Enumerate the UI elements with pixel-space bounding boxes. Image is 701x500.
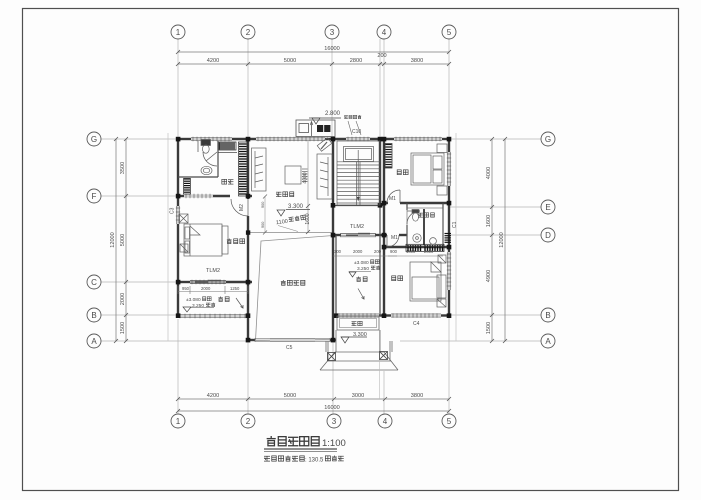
svg-text:C3: C3 (170, 207, 176, 214)
svg-text:M2: M2 (239, 204, 245, 211)
svg-text:4000: 4000 (303, 172, 309, 183)
svg-text:1250: 1250 (230, 286, 240, 291)
svg-text:900: 900 (390, 249, 398, 254)
svg-text:TLM2: TLM2 (350, 224, 364, 230)
svg-text:2800: 2800 (350, 58, 362, 64)
svg-text:C5: C5 (286, 345, 293, 351)
svg-text:1500: 1500 (120, 322, 126, 334)
svg-text:900: 900 (261, 222, 265, 228)
svg-text:1: 1 (176, 28, 181, 37)
svg-text:2.800: 2.800 (325, 111, 341, 117)
svg-text:200: 200 (374, 249, 382, 254)
svg-text:4200: 4200 (207, 58, 219, 64)
svg-text:900: 900 (261, 202, 265, 208)
svg-text:TLM2: TLM2 (206, 268, 220, 274)
svg-text:G: G (545, 135, 551, 144)
svg-text:3000: 3000 (352, 393, 364, 399)
svg-text:5000: 5000 (120, 234, 126, 246)
svg-text:5: 5 (447, 28, 452, 37)
svg-text:3.300: 3.300 (288, 204, 304, 210)
svg-text:4200: 4200 (207, 393, 219, 399)
svg-text:16000: 16000 (324, 405, 340, 411)
svg-text:B: B (91, 311, 96, 320)
svg-text:C: C (91, 278, 97, 287)
svg-text:±3.080: ±3.080 (186, 297, 201, 303)
svg-text:3: 3 (330, 28, 335, 37)
svg-text:1500: 1500 (486, 322, 492, 334)
svg-text:C4: C4 (413, 321, 420, 327)
svg-text:1000: 1000 (406, 249, 416, 254)
svg-text:16000: 16000 (324, 46, 340, 52)
svg-text:M1: M1 (391, 235, 398, 241)
svg-text:5: 5 (447, 417, 452, 426)
svg-text:1600: 1600 (305, 213, 311, 224)
svg-text:4: 4 (382, 28, 387, 37)
svg-text:3.300: 3.300 (353, 332, 367, 338)
svg-text:950: 950 (182, 286, 190, 291)
svg-text:2000: 2000 (120, 293, 126, 305)
svg-text:200: 200 (377, 53, 386, 59)
svg-text:4000: 4000 (486, 167, 492, 179)
svg-text:12000: 12000 (499, 232, 505, 248)
svg-text:5000: 5000 (284, 393, 296, 399)
svg-text:G: G (91, 135, 97, 144)
svg-text:±3.080: ±3.080 (354, 260, 369, 266)
svg-text:B: B (545, 311, 550, 320)
svg-text:4900: 4900 (486, 270, 492, 282)
svg-text:3: 3 (332, 417, 337, 426)
svg-text:F: F (92, 192, 97, 201)
svg-text:300: 300 (334, 249, 342, 254)
svg-text:2000: 2000 (353, 249, 363, 254)
svg-text:4: 4 (383, 417, 388, 426)
svg-text:3.250: 3.250 (357, 266, 369, 272)
svg-text:12000: 12000 (110, 232, 116, 248)
svg-text:5000: 5000 (284, 58, 296, 64)
svg-text:A: A (91, 337, 97, 346)
svg-text:1100: 1100 (276, 219, 289, 227)
svg-text:D: D (545, 231, 551, 240)
svg-text:2: 2 (246, 417, 251, 426)
svg-text:C1: C1 (452, 221, 458, 228)
svg-text:3.250: 3.250 (192, 303, 204, 309)
svg-text:C10: C10 (352, 129, 361, 135)
svg-text:1: 1 (176, 417, 181, 426)
svg-text:3500: 3500 (120, 162, 126, 174)
svg-text:1:100: 1:100 (322, 438, 346, 449)
svg-text:2: 2 (246, 28, 251, 37)
svg-text:1600: 1600 (486, 215, 492, 227)
svg-text:E: E (545, 203, 550, 212)
svg-text:: 130.5: : 130.5 (305, 458, 324, 464)
svg-text:A: A (545, 337, 551, 346)
svg-text:2000: 2000 (424, 249, 434, 254)
svg-text:3800: 3800 (411, 58, 423, 64)
svg-text:M1: M1 (389, 196, 396, 202)
svg-text:3800: 3800 (411, 393, 423, 399)
svg-text:2000: 2000 (201, 286, 211, 291)
